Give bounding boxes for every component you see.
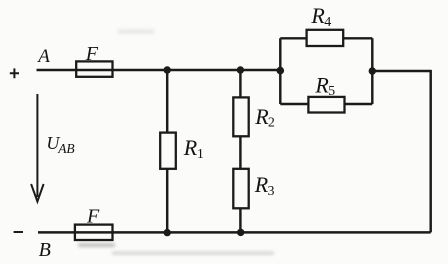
wire R2-R3 branch [239,70,241,232]
resistor R5 [308,97,344,113]
wire parallel group right vertical [371,38,373,104]
svg-text:B: B [39,239,51,261]
wire top branch through R4 [280,37,372,39]
junction right of parallel group [369,67,376,74]
svg-text:5: 5 [328,84,335,99]
junction bottom rail / R3 [237,229,244,236]
svg-text:AB: AB [57,141,74,156]
resistor R4 [307,30,344,46]
wire right rail [429,70,431,233]
junction left of parallel group [277,67,285,75]
svg-text:R: R [183,135,198,160]
svg-text:4: 4 [324,15,331,30]
fuse F top [76,61,112,76]
svg-text:1: 1 [197,147,204,162]
svg-text:3: 3 [268,184,275,199]
voltage arrow UAB [31,94,43,202]
wire parallel group to right rail [372,70,430,72]
wire parallel group left vertical [279,38,281,104]
wire bottom rail B [38,231,431,233]
fuse F bottom [75,225,113,240]
resistor R3 [233,169,248,209]
svg-text:A: A [36,46,50,67]
resistor R2 [233,97,248,136]
wire bottom branch through R5 [280,103,372,105]
svg-text:F: F [86,206,100,228]
svg-text:F: F [85,43,99,65]
junction top rail / R2 [237,66,244,73]
terminal minus [14,231,23,233]
wire R1 branch [166,70,168,232]
junction bottom rail / R1 [164,229,171,236]
wire top rail A to parallel group [37,69,282,71]
terminal plus [10,68,19,78]
svg-text:2: 2 [268,116,275,131]
svg-text:R: R [310,3,325,28]
resistor R1 [160,133,176,169]
junction top rail / R1 [164,66,171,73]
